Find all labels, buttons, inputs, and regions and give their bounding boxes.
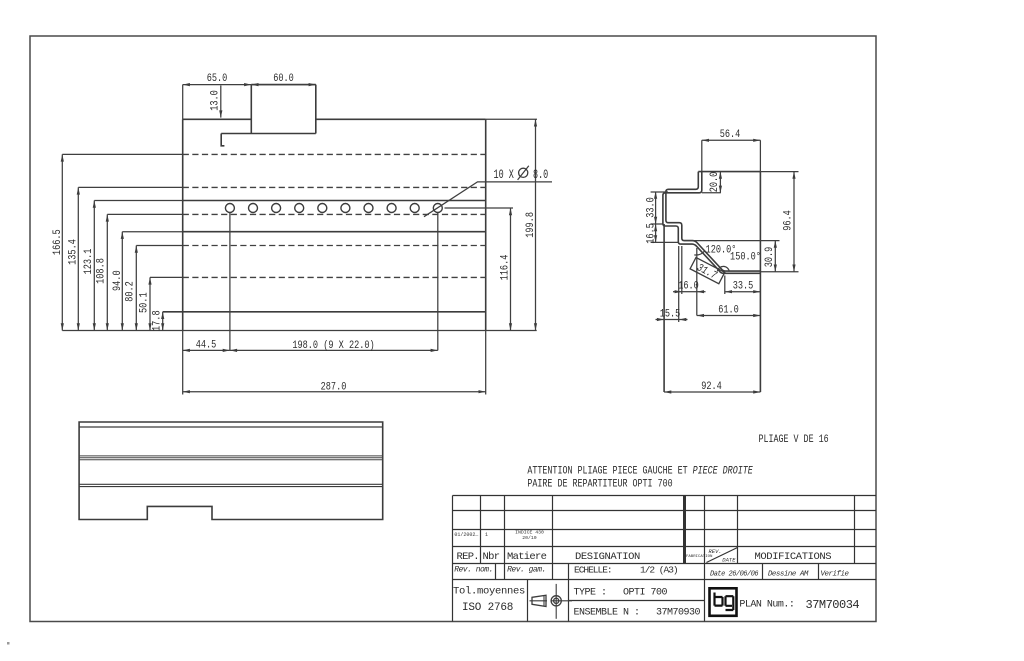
dim 20.0	[719, 172, 721, 193]
dim 56.4	[702, 140, 761, 171]
svg-text:50.1: 50.1	[137, 292, 149, 313]
bg logo	[710, 588, 737, 616]
ext from last hole	[445, 207, 514, 209]
dim 33.5	[724, 276, 726, 295]
ext top edge to 96.4	[760, 171, 798, 173]
col dessine/verifie	[818, 564, 820, 580]
svg-text:REP.: REP.	[457, 551, 479, 563]
tab hook	[221, 134, 224, 146]
svg-text:ATTENTION PLIAGE PIECE GAUCHE: ATTENTION PLIAGE PIECE GAUCHE ET PIECE D…	[527, 464, 752, 476]
dim 116.4	[510, 208, 512, 331]
svg-text:198.0 (9 X 22.0): 198.0 (9 X 22.0)	[292, 339, 374, 351]
svg-text:150.0°: 150.0°	[730, 251, 761, 263]
col 568.2	[568, 564, 570, 622]
title block left edge	[452, 496, 454, 622]
dim 44.5	[183, 349, 230, 351]
title block grid horizontals	[453, 496, 877, 580]
col 704.5 full height	[704, 496, 706, 622]
svg-text:17.8: 17.8	[150, 310, 162, 331]
dim 96.4	[793, 172, 795, 272]
dim 198.0 (9 X 22.0)	[230, 349, 438, 351]
dim line 60.0 (tab top)	[251, 84, 315, 86]
svg-text:DATE: DATE	[722, 557, 736, 564]
svg-text:92.4: 92.4	[701, 380, 722, 392]
svg-text:01/2002…: 01/2002…	[454, 532, 478, 538]
svg-text:TYPE : OPTI 700: TYPE : OPTI 700	[574, 588, 668, 599]
dashed fold line 1	[183, 153, 486, 155]
dim 61.0	[697, 315, 761, 317]
dim 15.5	[678, 246, 680, 322]
col 737.7	[737, 496, 739, 564]
svg-text:61.0: 61.0	[718, 304, 739, 316]
svg-text:94.0: 94.0	[111, 270, 123, 291]
svg-text:56.4: 56.4	[720, 128, 741, 140]
dim 199.8	[535, 119, 537, 330]
ext line left edge up	[182, 85, 184, 120]
svg-text:INDICE 430: INDICE 430	[515, 530, 544, 536]
svg-text:20.0: 20.0	[708, 172, 720, 193]
col 854.7	[854, 496, 856, 564]
dim 50.1	[150, 276, 183, 278]
lower double line	[79, 484, 383, 486]
dim 287.0	[183, 391, 486, 393]
svg-text:37M70034: 37M70034	[806, 598, 860, 612]
solid fold line 3	[163, 311, 486, 313]
dim 16.0	[682, 246, 697, 316]
svg-text:FABRICATION: FABRICATION	[686, 555, 713, 559]
svg-text:Tol.moyennes: Tol.moyennes	[453, 586, 525, 598]
dim 94.0	[122, 231, 182, 233]
svg-text:44.5: 44.5	[196, 339, 217, 351]
svg-text:33.0: 33.0	[644, 197, 656, 218]
svg-text:1: 1	[485, 532, 488, 538]
svg-text:30.9: 30.9	[763, 247, 775, 268]
svg-text:1/2 (A3): 1/2 (A3)	[640, 565, 678, 576]
dim 31.7 boxed on diagonal	[690, 257, 725, 284]
ext lines from holes	[230, 212, 438, 350]
type/ensemble divider	[569, 600, 705, 602]
dim 80.2	[136, 245, 182, 247]
body bottom edge (with extensions)	[62, 330, 536, 332]
svg-text:20/10: 20/10	[522, 535, 537, 541]
stray dot bottom-left	[7, 642, 10, 645]
svg-text:15.5: 15.5	[660, 308, 681, 320]
dim 33.0	[651, 192, 678, 242]
col rev small	[495, 564, 497, 580]
col Nbr/Matiere	[504, 496, 506, 580]
svg-text:65.0: 65.0	[207, 72, 228, 84]
svg-text:ENSEMBLE N : 37M70930: ENSEMBLE N : 37M70930	[574, 608, 701, 619]
svg-text:Verifie: Verifie	[821, 571, 850, 579]
dim line 65.0	[183, 84, 252, 86]
top tab outline	[221, 85, 316, 134]
ext flange bottom to 20.0 dim	[702, 192, 721, 194]
svg-text:135.4: 135.4	[66, 239, 78, 265]
sheet outer contour	[663, 172, 761, 274]
svg-text:16.5: 16.5	[644, 223, 656, 244]
dim 16.5	[655, 224, 657, 242]
svg-text:ISO 2768: ISO 2768	[462, 602, 513, 614]
col tol cell	[527, 580, 529, 622]
col date/dessine	[762, 564, 764, 580]
svg-text:PAIRE DE REPARTITEUR OPTI 700: PAIRE DE REPARTITEUR OPTI 700	[527, 477, 672, 489]
svg-text:DESIGNATION: DESIGNATION	[575, 551, 640, 563]
svg-text:96.4: 96.4	[782, 210, 794, 231]
dashed fold line 2	[183, 186, 486, 188]
sheet inner contour	[666, 172, 761, 272]
main body outline	[183, 118, 486, 120]
dim 123.1	[94, 200, 182, 202]
ext bottom flat to 96.4	[760, 271, 798, 273]
svg-text:PLAN Num.:: PLAN Num.:	[739, 600, 794, 611]
dim 30.9	[774, 241, 776, 272]
dim 13.0 vertical	[220, 86, 222, 118]
svg-text:33.5: 33.5	[733, 280, 754, 292]
svg-text:PLIAGE V DE 16: PLIAGE V DE 16	[759, 433, 829, 445]
profile top edge	[698, 171, 760, 173]
dashed fold line 5	[183, 276, 486, 278]
ext top edge right	[486, 118, 537, 120]
page border frame	[30, 36, 876, 622]
svg-text:Nbr: Nbr	[483, 551, 500, 563]
svg-text:10 X: 10 X	[494, 169, 515, 183]
svg-text:199.8: 199.8	[524, 212, 536, 238]
svg-text:REV.: REV.	[709, 548, 722, 555]
svg-text:8.0: 8.0	[533, 169, 548, 183]
svg-text:108.8: 108.8	[94, 258, 106, 284]
svg-text:Rev. gam.: Rev. gam.	[507, 566, 546, 575]
svg-text:287.0: 287.0	[321, 381, 347, 393]
dim 92.4	[664, 391, 760, 393]
projection symbol	[530, 584, 573, 619]
middle triple line	[79, 456, 383, 460]
solid fold line 1	[183, 200, 486, 202]
ext lines down from body	[183, 331, 486, 395]
svg-text:116.4: 116.4	[498, 255, 510, 281]
svg-text:Dessine AM: Dessine AM	[768, 571, 809, 579]
col REP/Nbr	[480, 496, 482, 564]
dim 17.8	[162, 312, 164, 331]
rev/date diagonal cell	[706, 548, 737, 563]
svg-text:Matiere: Matiere	[507, 551, 547, 563]
col Matiere/DESIGNATION	[552, 496, 554, 580]
main right face	[759, 172, 761, 392]
dim 166.5	[62, 153, 182, 155]
dashed fold line 4	[183, 245, 486, 247]
svg-text:166.5: 166.5	[51, 229, 63, 255]
svg-text:60.0: 60.0	[273, 72, 294, 84]
dashed fold line 3	[183, 213, 486, 215]
solid fold line 2	[183, 231, 486, 233]
svg-text:Rev. nom.: Rev. nom.	[454, 566, 493, 575]
svg-text:ECHELLE:: ECHELLE:	[574, 565, 612, 576]
col thick designation end	[683, 496, 686, 564]
svg-text:123.1: 123.1	[82, 249, 94, 275]
holes row 10 x D8	[225, 204, 442, 213]
dim 108.8	[107, 213, 182, 215]
svg-text:MODIFICATIONS: MODIFICATIONS	[755, 551, 832, 563]
svg-text:Date 26/06/06: Date 26/06/06	[710, 571, 758, 579]
dim 135.4	[78, 186, 182, 188]
svg-text:16.0: 16.0	[678, 280, 699, 292]
left long face	[663, 224, 665, 392]
top double line	[79, 426, 383, 428]
svg-text:13.0: 13.0	[208, 90, 220, 111]
side view outline with notch	[79, 422, 383, 520]
ext step to 30.9	[684, 240, 780, 242]
svg-text:80.2: 80.2	[123, 281, 135, 302]
